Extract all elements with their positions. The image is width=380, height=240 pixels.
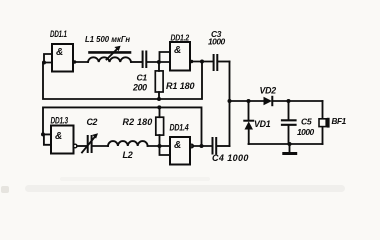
svg-text:&: & <box>174 140 181 151</box>
wire C1 to DD1.2 input <box>147 61 170 63</box>
gate DD1.1 <box>44 44 73 72</box>
svg-text:VD1: VD1 <box>254 119 271 129</box>
svg-text:C2: C2 <box>87 117 98 127</box>
capacitor C2 variable <box>82 133 98 152</box>
label C5 1000 <box>297 116 314 136</box>
node DD1.4 output bubble <box>190 144 194 148</box>
svg-text:DD1.4: DD1.4 <box>170 123 190 133</box>
capacitor C1 <box>143 52 147 68</box>
wire mixer vertical node line <box>229 62 231 147</box>
resistor R1 <box>155 62 163 99</box>
svg-text:R2 180: R2 180 <box>123 117 153 127</box>
svg-text:1000: 1000 <box>208 37 225 47</box>
capacitor C4 <box>213 138 217 154</box>
node C5 top junction <box>287 99 291 103</box>
svg-text:VD2: VD2 <box>260 86 277 96</box>
wire DD1.2 upper input bracket <box>160 52 171 62</box>
resistor R2 <box>156 107 164 146</box>
node DD1.3 input junction <box>41 132 45 136</box>
gate DD1.3 <box>44 126 74 154</box>
svg-text:200: 200 <box>132 83 147 93</box>
wire L1 to C1 <box>131 61 142 63</box>
svg-text:R1 180: R1 180 <box>166 81 195 91</box>
capacitor C3 <box>214 55 218 70</box>
node DD1.1 input junction <box>42 61 46 65</box>
svg-text:&: & <box>56 47 63 58</box>
wire feedback osc1: DD1.2 out down, left, up to DD1.1 input <box>43 62 202 100</box>
node R2 top junction <box>157 105 161 109</box>
svg-text:C5: C5 <box>301 116 312 126</box>
wire bottom rail <box>249 143 323 145</box>
svg-text:L2: L2 <box>123 150 133 160</box>
svg-text:DD1.3: DD1.3 <box>51 115 69 125</box>
wire top rail to VD2 <box>230 100 264 102</box>
gate DD1.2 <box>170 42 190 71</box>
wire DD1.4 output to C4 <box>190 145 212 147</box>
capacitor C5 <box>282 101 296 144</box>
wire DD1.3 output to C2 <box>77 145 87 147</box>
diode VD2 <box>264 97 273 105</box>
svg-text:&: & <box>174 45 181 56</box>
svg-text:1000: 1000 <box>297 127 314 137</box>
label C1 200 <box>132 73 147 93</box>
svg-text:DD1.1: DD1.1 <box>50 29 67 39</box>
svg-text:BF1: BF1 <box>332 117 347 126</box>
label C3 1000 <box>208 29 225 47</box>
node R1 bottom junction <box>157 97 161 101</box>
wire DD1.2 output to C3 <box>190 61 213 63</box>
node DD1.1 output bubble <box>73 60 76 63</box>
svg-text:DD1.2: DD1.2 <box>171 33 190 43</box>
svg-text:C1: C1 <box>137 73 148 83</box>
node DD1.4 output junction <box>200 144 204 148</box>
wire C3 to mixer vertical <box>218 61 229 63</box>
wire VD2 to C5 junction and BF1 <box>272 100 322 102</box>
wire DD1.4 lower input bracket <box>160 146 171 155</box>
node DD1.4 input junction <box>158 144 162 148</box>
wire C2 to L2 <box>93 145 108 147</box>
node VD1 top junction <box>247 99 251 103</box>
node DD1.2 output junction <box>200 60 204 64</box>
wire BF1 branch <box>322 101 324 144</box>
gate DD1.4 <box>170 137 190 165</box>
svg-text:&: & <box>55 131 62 142</box>
wire C4 to mixer vertical <box>217 145 229 147</box>
node DD1.2 output bubble <box>190 60 193 63</box>
inductor L1 <box>88 46 131 62</box>
wire L2 to DD1.4 input <box>148 145 170 147</box>
node mixer junction <box>228 99 232 103</box>
paper smudge (decorative) <box>25 185 345 192</box>
sounder BF1 <box>319 118 330 128</box>
wire DD1.1 output to L1 <box>73 61 88 63</box>
svg-text:L1 500 мкГн: L1 500 мкГн <box>85 35 130 44</box>
ground <box>284 144 296 154</box>
wire feedback osc2 line <box>43 107 202 146</box>
node DD1.3 output bubble <box>73 144 77 148</box>
node DD1.2 input junction <box>157 60 161 64</box>
node ground junction <box>288 142 292 146</box>
diode VD1 <box>244 101 253 144</box>
svg-text:C4 1000: C4 1000 <box>212 153 249 163</box>
inductor L2 <box>108 141 148 146</box>
